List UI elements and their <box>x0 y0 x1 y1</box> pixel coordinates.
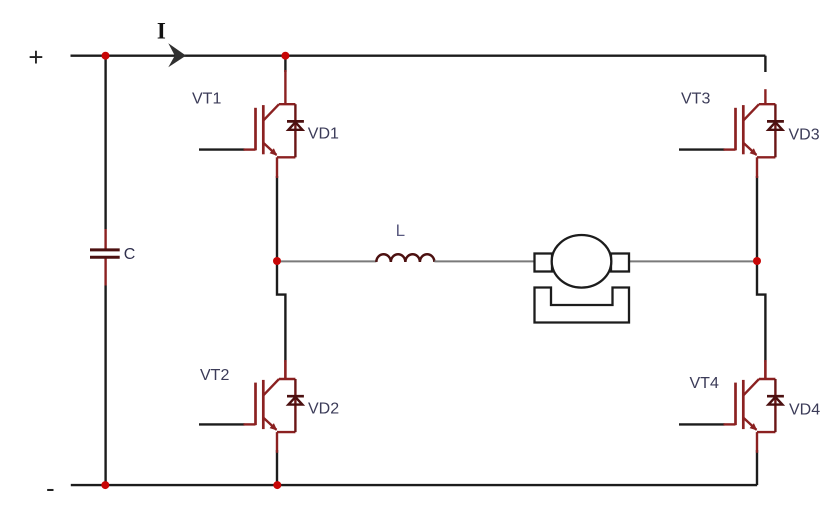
svg-text:VD2: VD2 <box>308 401 339 418</box>
transistor VT2 <box>244 362 296 453</box>
transistor VT1 <box>244 70 296 178</box>
wire VT1 gate lead <box>199 148 245 150</box>
wire VT3 emitter to node B <box>756 176 758 261</box>
svg-text:I: I <box>157 19 166 44</box>
wire node B to VT4 collector (jog) <box>757 261 765 362</box>
wire motor to node B <box>623 260 757 262</box>
wire VT3 gate lead <box>679 148 725 150</box>
motor M armature and brushes <box>535 235 630 288</box>
junction - rail / VT2 emitter <box>273 481 281 489</box>
motor stator yoke <box>535 288 630 323</box>
junction - rail / C branch <box>101 481 109 489</box>
svg-text:VT1: VT1 <box>192 91 221 108</box>
capacitor C <box>90 229 120 286</box>
diode VD2 <box>287 379 304 432</box>
wire node A to VT2 collector (jog) <box>277 261 285 362</box>
svg-text:VT2: VT2 <box>200 367 229 384</box>
svg-text:VT3: VT3 <box>681 91 710 108</box>
wire node A to inductor <box>277 260 376 262</box>
node B (VT3-VT4 midpoint) <box>753 257 761 265</box>
wire bottom rail (- bus) <box>71 484 757 486</box>
wire VT2 collector lead upper <box>284 360 286 379</box>
svg-text:C: C <box>124 246 136 263</box>
wire VT2 emitter to bottom rail <box>276 450 278 485</box>
node A (VT1-VT2 midpoint) <box>273 257 281 265</box>
transistor VT4 <box>724 362 776 453</box>
diode VD4 <box>767 379 784 432</box>
wire VT1 collector stub <box>284 56 286 72</box>
wire left capacitor branch <box>104 56 106 485</box>
current arrow I <box>168 43 186 67</box>
wire top rail right corner to VT3 collector <box>764 56 766 72</box>
svg-text:+: + <box>28 42 43 72</box>
wire top rail (+ bus) <box>71 55 766 57</box>
wire VT2 gate lead <box>199 423 245 425</box>
wire VT4 emitter to bottom rail corner <box>756 450 758 485</box>
wire VT1 emitter to node A <box>276 176 278 261</box>
inductor L <box>376 254 434 262</box>
diode VD3 <box>767 104 784 157</box>
junction + rail / C branch <box>102 52 110 60</box>
diode VD1 <box>287 104 304 157</box>
svg-text:L: L <box>396 221 405 240</box>
svg-text:VD4: VD4 <box>789 402 820 419</box>
junction + rail / VT1 collector <box>281 52 289 60</box>
wire VT4 collector lead upper <box>764 360 766 379</box>
wire inductor to motor <box>434 260 540 262</box>
svg-text:-: - <box>46 473 55 503</box>
svg-text:VD3: VD3 <box>789 127 820 144</box>
svg-text:VT4: VT4 <box>690 375 719 392</box>
transistor VT3 <box>724 89 776 178</box>
wire VT4 gate lead <box>679 423 725 425</box>
svg-text:VD1: VD1 <box>308 126 339 143</box>
